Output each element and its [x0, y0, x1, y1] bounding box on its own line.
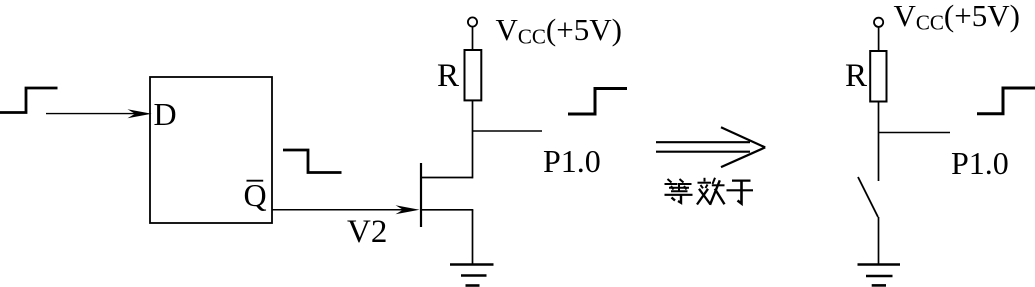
arrowhead at V2 gate	[396, 205, 420, 214]
svg-text:R: R	[845, 58, 867, 94]
text 等效于 (drawn strokes)	[665, 178, 754, 205]
svg-text:VCC(+5V): VCC(+5V)	[894, 0, 1020, 35]
wire V2 drain to node	[420, 177, 473, 179]
switch S1 blade	[858, 177, 878, 217]
D flip-flop box U1	[150, 77, 272, 223]
pin label Q-bar	[244, 177, 267, 213]
VCC terminal circle (right)	[874, 18, 883, 27]
ground (left)	[450, 265, 494, 286]
equivalence double arrow	[656, 127, 765, 167]
wire V2 source	[421, 209, 473, 211]
ground (right)	[858, 265, 901, 286]
char 等	[665, 179, 693, 203]
wire Q-bar output to V2 gate	[272, 209, 405, 211]
resistor R (right)	[870, 51, 886, 102]
wire switch to ground (right)	[878, 217, 880, 265]
svg-text:VCC(+5V): VCC(+5V)	[496, 12, 622, 49]
wire resistor to switch (right)	[878, 102, 880, 182]
svg-text:P1.0: P1.0	[951, 145, 1009, 181]
resistor R (left)	[465, 50, 482, 100]
svg-text:D: D	[154, 96, 177, 132]
svg-text:Q: Q	[244, 177, 267, 213]
wire node to P1.0 (left)	[473, 130, 543, 132]
char 效	[697, 178, 725, 205]
input arrow into D	[46, 109, 152, 118]
waveform falling edge at Q-bar output	[283, 150, 342, 173]
output waveform rising edge (left circuit)	[568, 89, 627, 115]
svg-text:V2: V2	[347, 214, 387, 250]
VCC terminal circle (left)	[468, 17, 477, 26]
wire node to P1.0 (right)	[879, 132, 951, 134]
output waveform rising edge (right circuit)	[977, 88, 1035, 114]
transistor V2 bar	[420, 163, 422, 227]
wire source down to ground (left)	[472, 210, 474, 265]
wire VCC terminal to resistor (right)	[878, 27, 880, 51]
wire VCC terminal to resistor (left)	[472, 27, 474, 50]
wire resistor to drain node (left)	[472, 100, 474, 178]
input waveform rising edge	[0, 88, 58, 113]
svg-text:P1.0: P1.0	[543, 143, 601, 179]
char 于	[727, 181, 754, 204]
svg-text:R: R	[437, 58, 459, 94]
